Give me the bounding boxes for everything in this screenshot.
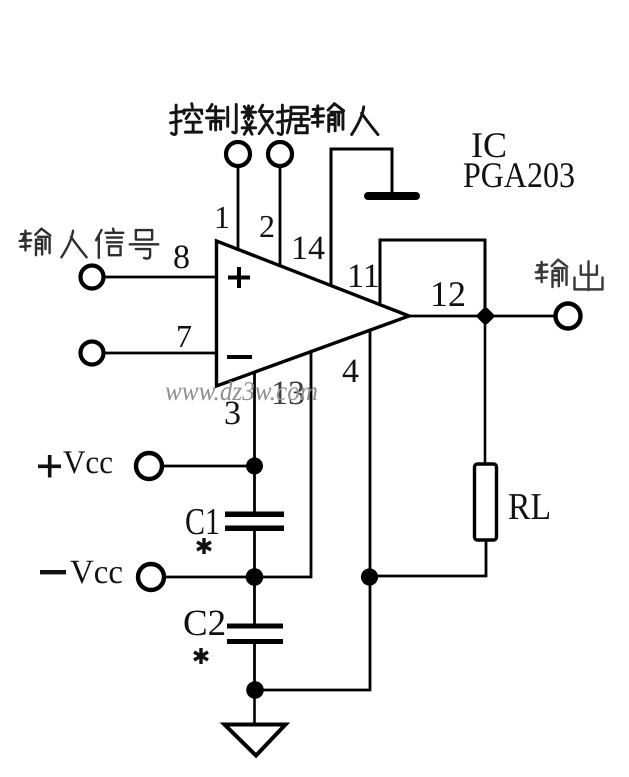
- wire: C2 to ground node: [253, 643, 256, 691]
- op-amp U1 triangle: [217, 241, 410, 386]
- wire: to ground: [253, 690, 256, 724]
- label C2 asterisk: [194, 648, 208, 664]
- wire: pin 14 vertical up: [331, 149, 392, 286]
- output terminal: [556, 304, 581, 329]
- svg-text:Vcc: Vcc: [63, 445, 113, 481]
- wire: pin 4 vertical: [255, 330, 370, 690]
- wire: RL bottom to node: [370, 540, 486, 576]
- junction: ground node: [246, 681, 264, 699]
- terminal: control data input 2: [268, 142, 292, 166]
- svg-text:1: 1: [214, 199, 230, 235]
- label: 控制数据输入 (control data input): [170, 104, 378, 135]
- junction: output node: [476, 306, 496, 326]
- junction: +Vcc node: [246, 458, 263, 475]
- op-amp minus sign: [227, 355, 252, 359]
- svg-text:PGA203: PGA203: [463, 155, 575, 195]
- label -Vcc: [40, 570, 66, 574]
- op-amp plus sign: [228, 267, 250, 288]
- label +Vcc: [38, 455, 61, 478]
- wire: pin 11 feedback: [380, 240, 485, 316]
- wire: C1 to -Vcc node: [253, 530, 256, 624]
- capacitor C1: [225, 512, 284, 518]
- wire: junction to RL: [484, 316, 487, 464]
- svg-text:4: 4: [342, 353, 359, 390]
- digital ground bar: [364, 192, 420, 200]
- ground symbol: [225, 725, 286, 756]
- wire: pin 1 vertical: [237, 166, 240, 251]
- -Vcc terminal: [138, 564, 164, 590]
- label: 输出 (output): [536, 260, 603, 290]
- svg-text:8: 8: [173, 239, 190, 276]
- wire: pin 3 vertical chain: [253, 372, 256, 512]
- wire: -Vcc: [164, 352, 311, 577]
- wire: +Vcc: [162, 465, 254, 468]
- svg-text:C1: C1: [185, 501, 220, 543]
- wire: input 8: [103, 276, 217, 279]
- svg-text:www.dz3w.com: www.dz3w.com: [165, 376, 318, 406]
- terminal: control data input 1: [226, 142, 250, 166]
- wire: pin 2 vertical: [279, 166, 282, 267]
- svg-text:Vcc: Vcc: [70, 554, 123, 591]
- svg-text:12: 12: [430, 274, 466, 314]
- svg-text:RL: RL: [508, 486, 551, 528]
- resistor RL: [475, 464, 497, 540]
- wire: input 7: [103, 352, 217, 355]
- svg-text:11: 11: [347, 258, 380, 295]
- +Vcc terminal: [136, 453, 162, 479]
- capacitor C2: [227, 624, 283, 629]
- junction: pin4/RL node: [361, 568, 378, 585]
- svg-text:C2: C2: [183, 603, 226, 644]
- input terminal pin 7: [81, 342, 104, 365]
- svg-text:14: 14: [291, 230, 325, 267]
- junction: -Vcc node: [246, 568, 264, 586]
- wire: output: [409, 315, 556, 318]
- svg-text:7: 7: [176, 318, 192, 354]
- input terminal pin 8: [81, 266, 104, 289]
- label C1 asterisk: [197, 538, 211, 554]
- svg-text:2: 2: [259, 208, 275, 244]
- label: 输入信号 (input signal): [20, 229, 159, 259]
